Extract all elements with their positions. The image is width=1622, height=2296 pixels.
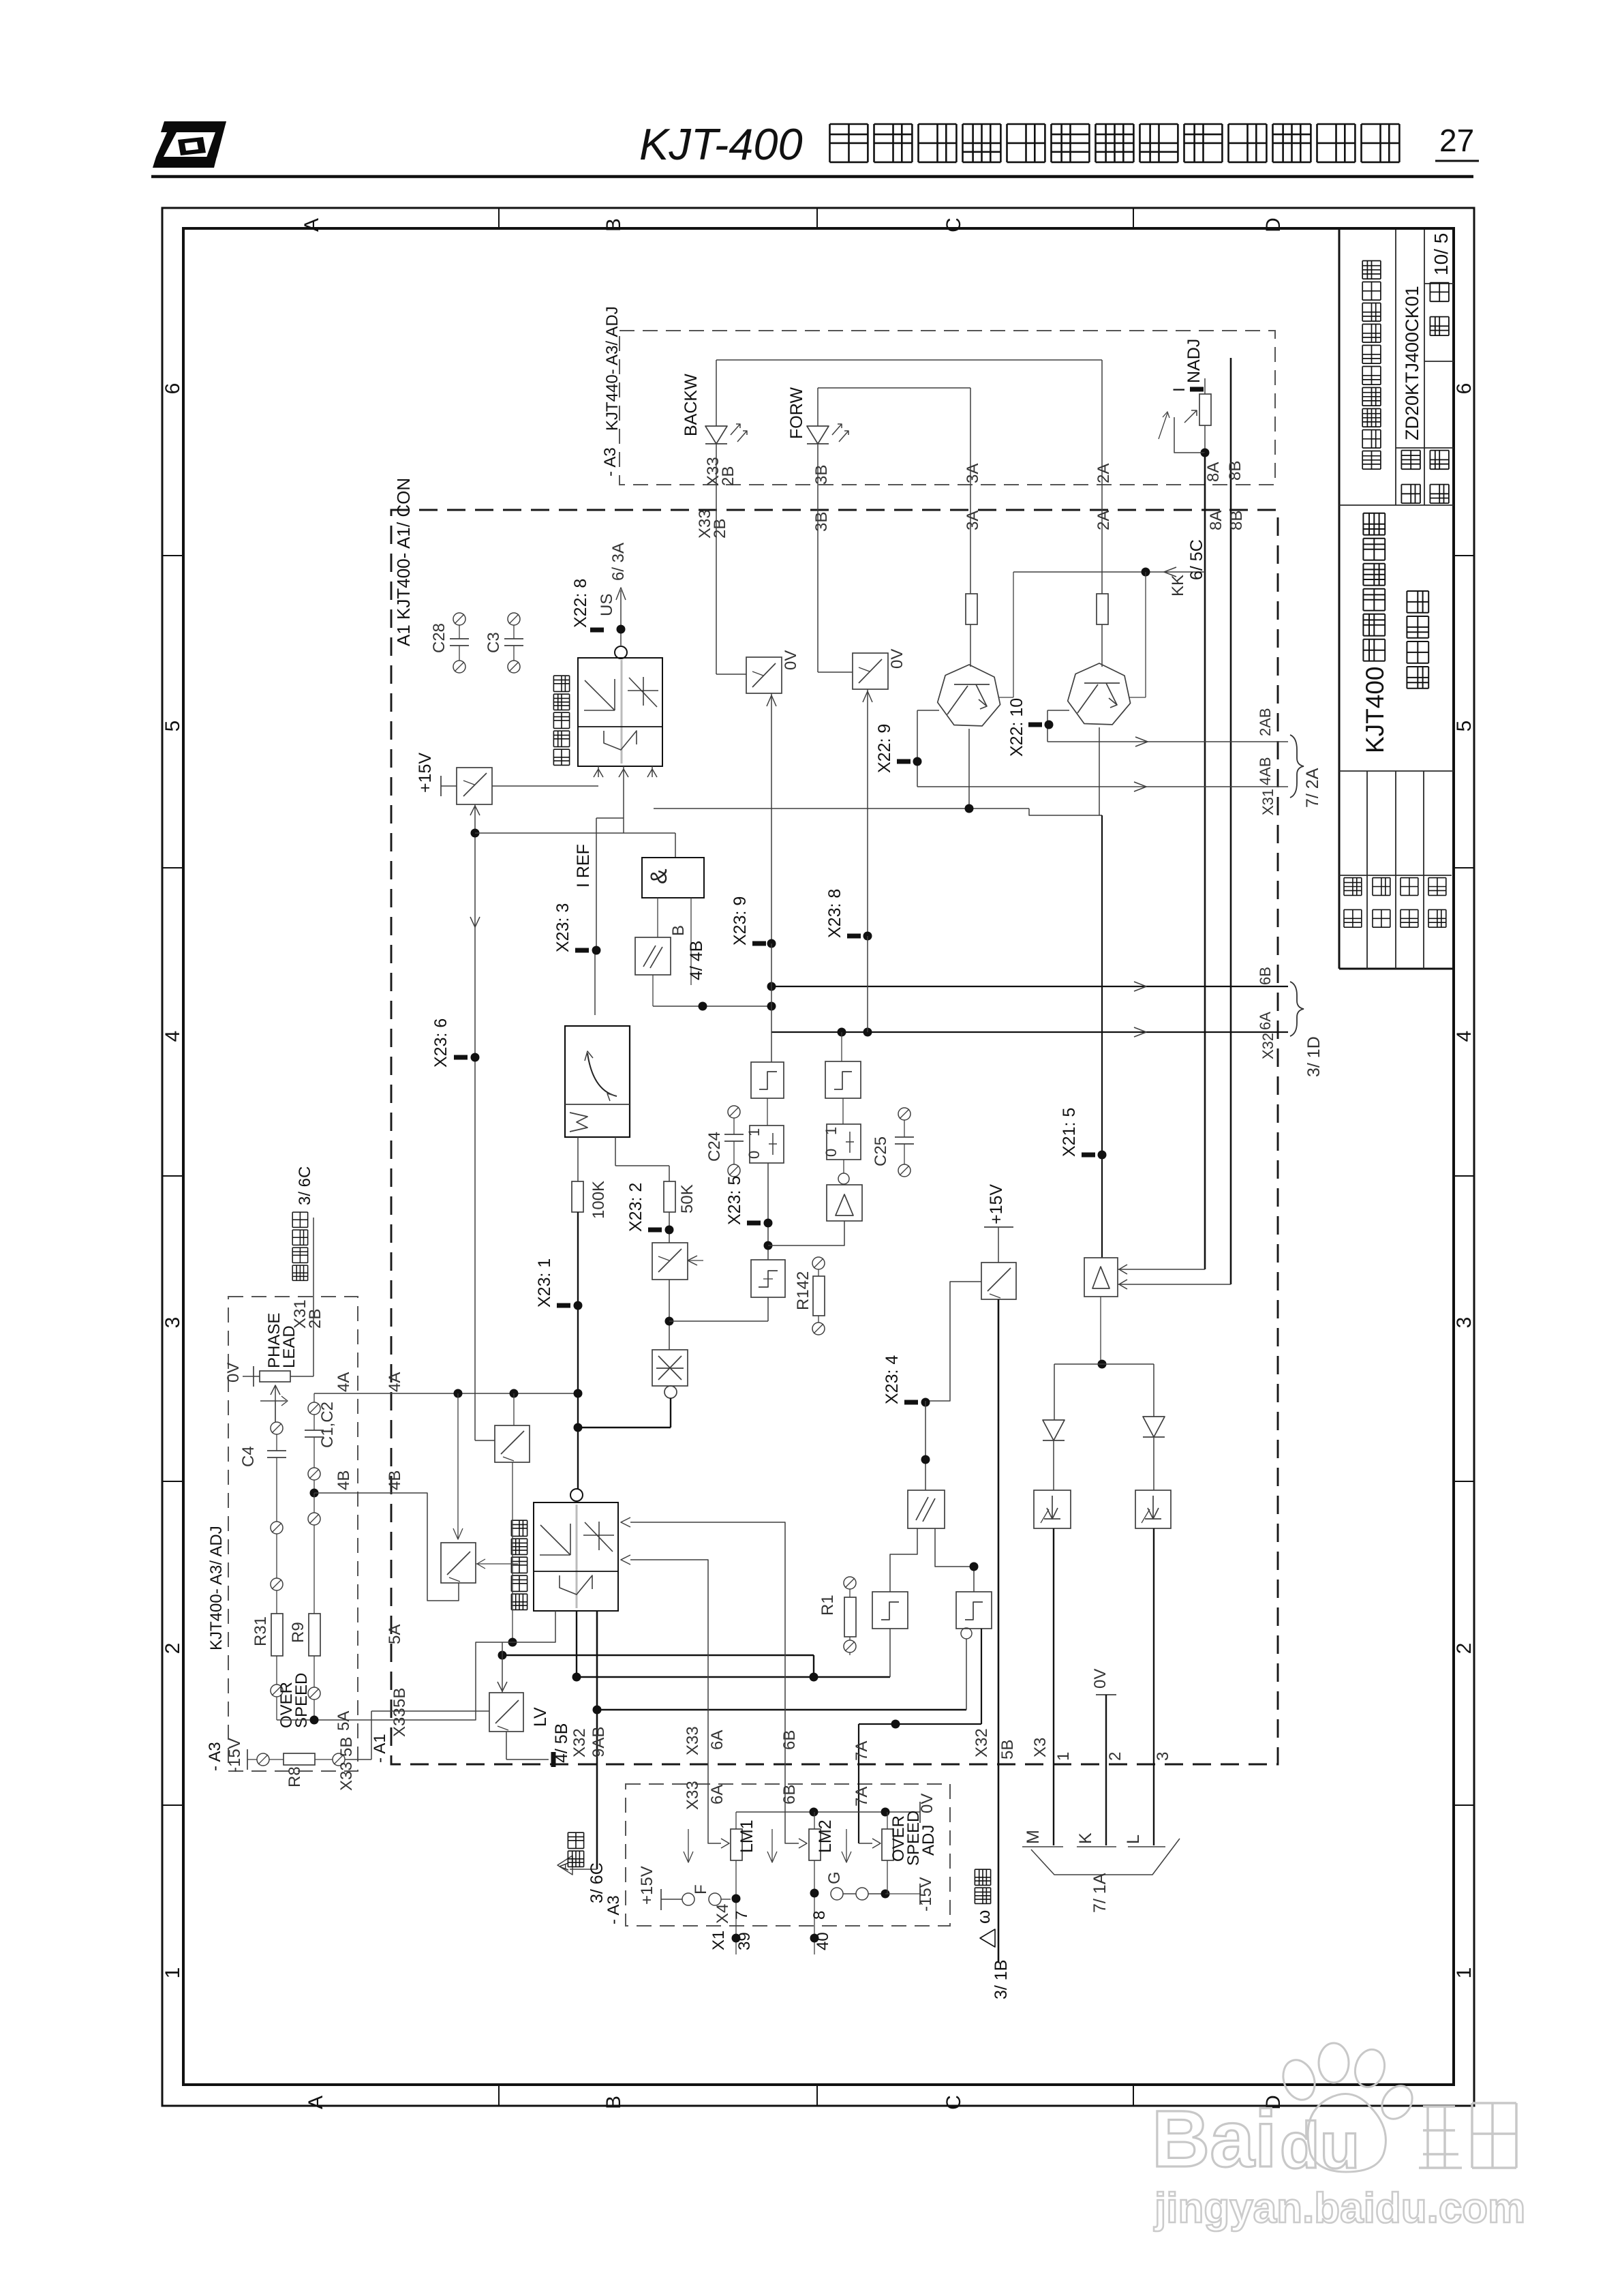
thyristor Q2 — [1068, 663, 1131, 725]
svg-text:-15V: -15V — [226, 1738, 244, 1772]
svg-text:X32: X32 — [1259, 1033, 1276, 1059]
svg-text:4B: 4B — [335, 1470, 353, 1490]
svg-text:4/ 4B: 4/ 4B — [687, 941, 706, 980]
wire 1476 rail — [652, 975, 654, 1006]
terminal X22:10 gate Q2 — [1047, 710, 1069, 711]
grid ticks right band — [1454, 555, 1474, 556]
svg-text:X1: X1 — [709, 1931, 728, 1950]
wire X23:5 chain — [767, 1163, 769, 1260]
svg-text:4A: 4A — [386, 1372, 404, 1392]
svg-text:5: 5 — [1453, 721, 1475, 732]
svg-text:4/ 5B: 4/ 5B — [552, 1723, 571, 1763]
svg-text:X33: X33 — [337, 1762, 356, 1791]
wire 7A drop — [858, 1724, 859, 1843]
svg-text:3/ 6C: 3/ 6C — [587, 1862, 607, 1903]
svg-text:B: B — [669, 925, 688, 936]
svg-text:8: 8 — [810, 1911, 829, 1920]
svg-text:+15V: +15V — [638, 1866, 656, 1905]
wire 6A rail — [771, 1031, 1288, 1033]
terminal X23:6 — [454, 1055, 468, 1060]
terminal X23:8 — [847, 934, 861, 939]
svg-text:B: B — [602, 218, 625, 232]
svg-text:KK: KK — [1169, 575, 1187, 596]
arrow into clamp 1 — [771, 693, 772, 943]
svg-text:- A3: - A3 — [605, 1895, 623, 1924]
resistor R9 — [309, 1614, 320, 1656]
step block B7 — [751, 1062, 784, 1098]
svg-text:0: 0 — [823, 1149, 840, 1157]
svg-text:ADJ: ADJ — [919, 1825, 938, 1856]
svg-text:B: B — [602, 2096, 625, 2109]
svg-text:3: 3 — [162, 1317, 184, 1329]
svg-text:X32: X32 — [570, 1728, 589, 1757]
step block B8 — [867, 936, 868, 1032]
block B9 level 0/1 — [767, 1098, 768, 1126]
svg-text:KJT400- A3/ ADJ: KJT400- A3/ ADJ — [207, 1526, 226, 1650]
wire B11 to X23:5 node — [768, 1221, 844, 1245]
svg-text:0V: 0V — [224, 1363, 243, 1383]
wire X33 5B into A1 — [345, 1759, 371, 1760]
title block text 页次 — [1430, 283, 1449, 336]
svg-text:6A: 6A — [1257, 1012, 1274, 1030]
svg-text:X23: 5: X23: 5 — [725, 1176, 744, 1225]
wire U2 out B 9AB — [596, 1611, 598, 1869]
wire X3:3 L — [1153, 1528, 1154, 1845]
wire multiplier down to 2094 rail — [670, 1398, 671, 1428]
opto block B19 — [1135, 1490, 1171, 1528]
iso amplifier block B14 — [1084, 1258, 1118, 1297]
svg-text:X23: 4: X23: 4 — [883, 1355, 902, 1404]
svg-text:G: G — [825, 1871, 844, 1884]
inner frame — [183, 228, 1454, 2085]
gate block & — [642, 858, 704, 898]
svg-text:US: US — [598, 594, 616, 616]
wire B14 output — [1100, 1297, 1101, 1364]
svg-text:6B: 6B — [780, 1785, 799, 1804]
svg-text:R142: R142 — [794, 1271, 812, 1310]
resistor 100K — [577, 1137, 579, 1181]
svg-text:3A: 3A — [964, 464, 982, 483]
svg-text:0: 0 — [746, 1151, 763, 1159]
step block B16 — [956, 1592, 992, 1629]
svg-text:7A: 7A — [853, 1787, 871, 1807]
wire clamp1 chain vertical 1132 — [771, 943, 772, 1062]
svg-text:X22: 8: X22: 8 — [571, 579, 590, 628]
B14 input arrows from 8A 8B — [1118, 1269, 1205, 1270]
svg-text:LEAD: LEAD — [280, 1325, 299, 1368]
comparator block B17 — [908, 1490, 945, 1528]
arrow into clamp 2 — [867, 689, 868, 936]
wire 4B rail — [314, 1493, 459, 1601]
svg-text:39: 39 — [735, 1932, 754, 1950]
switch block B20 ramp enable — [495, 1425, 530, 1462]
block B10 level 0/1 — [842, 1098, 844, 1124]
dashed box A1 KJT400-A1/CON — [391, 510, 1278, 1764]
wire X23:4 to comparator B17 — [925, 1401, 926, 1490]
title block text 控制框图 line2 — [1407, 591, 1428, 689]
potentiometer OVER SPEED ADJ — [882, 1829, 893, 1860]
svg-text:- A3: - A3 — [206, 1742, 224, 1771]
title block text 日期 — [1430, 451, 1449, 504]
dashed box KJT440-A3/ADJ (top) — [619, 331, 1275, 485]
svg-text:C1,C2: C1,C2 — [318, 1402, 337, 1448]
svg-text:8B: 8B — [1226, 461, 1244, 481]
svg-text:27: 27 — [1439, 123, 1474, 158]
svg-text:6B: 6B — [780, 1730, 799, 1750]
svg-text:L: L — [1124, 1834, 1143, 1844]
svg-text:6/ 3A: 6/ 3A — [609, 543, 628, 581]
svg-text:100K: 100K — [590, 1181, 608, 1219]
svg-text:ZD20KTJ400CK01: ZD20KTJ400CK01 — [1402, 286, 1422, 440]
svg-text:5B: 5B — [998, 1740, 1017, 1759]
potentiometer LM2 — [809, 1829, 821, 1860]
resistor 50K — [615, 1137, 616, 1166]
svg-text:D: D — [1262, 217, 1285, 232]
wire FORW loop 3A — [817, 388, 818, 426]
wire B13 left to X23:4 — [925, 1282, 981, 1401]
svg-text:X23: 2: X23: 2 — [626, 1183, 645, 1232]
header rule — [151, 175, 1473, 179]
svg-text:1: 1 — [823, 1127, 840, 1135]
amplifier block B11 — [843, 1160, 844, 1173]
svg-text:1: 1 — [1453, 1967, 1475, 1979]
title block designer labels 设计 制图 审核 修改 — [1344, 878, 1362, 928]
0V rail bottom box — [736, 1811, 920, 1813]
wire X3:1 M — [1053, 1528, 1054, 1845]
wire 4A rail — [314, 1393, 578, 1394]
thyristor Q1 — [938, 665, 1000, 726]
svg-text:5B: 5B — [391, 1688, 409, 1708]
svg-text:0V: 0V — [888, 649, 906, 669]
title block text KJT400 title line1 — [1361, 513, 1389, 753]
svg-text:5B: 5B — [337, 1737, 356, 1757]
svg-text:3A: 3A — [964, 511, 982, 530]
wire B5 to multiplier — [669, 1280, 670, 1350]
svg-text:C4: C4 — [239, 1446, 258, 1467]
svg-text:R9: R9 — [289, 1622, 307, 1643]
svg-text:0V: 0V — [782, 650, 800, 670]
svg-text:X23: 9: X23: 9 — [731, 896, 750, 946]
svg-text:X31: X31 — [1259, 789, 1276, 815]
step block B15 — [872, 1592, 908, 1629]
wire to -15V — [885, 1893, 920, 1894]
wire 1222 rail to & block — [475, 832, 675, 834]
svg-text:2B: 2B — [719, 466, 737, 486]
svg-text:I: I — [1170, 387, 1189, 392]
terminal X23:1 — [557, 1303, 570, 1308]
grid ticks left band — [162, 555, 183, 556]
svg-text:7/ 2A: 7/ 2A — [1303, 768, 1322, 808]
switch block B5 — [652, 1243, 688, 1280]
svg-text:-15V: -15V — [917, 1877, 935, 1912]
svg-text:FORW: FORW — [787, 387, 806, 439]
svg-text:A1 KJT400- A1/ CON: A1 KJT400- A1/ CON — [393, 478, 414, 646]
U1 input arrows — [598, 766, 599, 777]
svg-text:C28: C28 — [430, 623, 448, 653]
svg-text:LV: LV — [531, 1707, 550, 1727]
svg-text:X33: X33 — [391, 1708, 409, 1737]
svg-text:0V: 0V — [1091, 1669, 1110, 1689]
label overspeed delta-omega 超速 — [975, 1869, 990, 1903]
svg-text:7A: 7A — [853, 1741, 871, 1761]
switch block S1 +15V — [457, 768, 492, 804]
switch block B21 — [441, 1543, 476, 1583]
svg-text:5A: 5A — [335, 1711, 353, 1731]
wire 2508 rail — [597, 1709, 966, 1710]
svg-text:6: 6 — [162, 383, 184, 395]
svg-text:C25: C25 — [872, 1136, 890, 1166]
svg-text:A: A — [305, 2096, 327, 2109]
svg-text:X22: 10: X22: 10 — [1007, 698, 1026, 757]
svg-text:2: 2 — [1453, 1643, 1475, 1655]
svg-text:5A: 5A — [386, 1625, 404, 1644]
dashed box -A3 (bottom pots) — [626, 1784, 950, 1926]
svg-text:X21: 5: X21: 5 — [1060, 1108, 1079, 1157]
wire X23:6 vertical — [474, 804, 476, 1440]
svg-text:3/ 6C: 3/ 6C — [296, 1166, 314, 1205]
terminal NADJ — [1190, 387, 1204, 392]
title block text company 上海智大电子有限公司 — [1362, 261, 1381, 470]
label 速度调节器 — [511, 1520, 527, 1610]
svg-text:LM2: LM2 — [816, 1819, 835, 1853]
wire LV input rail 2428 — [502, 1655, 814, 1656]
wire 2AB — [1047, 741, 1288, 742]
terminal X23:2 — [669, 1212, 670, 1243]
hysteresis block B12 — [751, 1260, 785, 1297]
wire US output to 6/3A — [620, 590, 622, 646]
svg-text:3B: 3B — [812, 512, 831, 532]
svg-text:7/ 1A: 7/ 1A — [1090, 1873, 1110, 1913]
reference brace 7/2A — [1290, 735, 1304, 798]
svg-text:+15V: +15V — [987, 1184, 1006, 1224]
svg-text:X4: X4 — [714, 1904, 732, 1924]
terminal X23:9 — [752, 941, 766, 946]
comparator block B3 — [635, 937, 671, 975]
svg-text:C: C — [943, 217, 965, 232]
header title KJT-400 manual — [639, 119, 1399, 169]
switch block B13 — [981, 1263, 1016, 1299]
wire X31 4AB — [917, 786, 1288, 787]
reference brace 3/1D — [1290, 982, 1304, 1036]
potentiometer NADJ — [1199, 394, 1211, 425]
resistor 3A chain — [966, 594, 977, 624]
title block borders — [1338, 230, 1341, 969]
terminal X22:9 gate Q1 — [968, 729, 970, 809]
svg-text:M: M — [1024, 1830, 1043, 1844]
svg-text:KJT-400: KJT-400 — [639, 119, 803, 169]
svg-text:X3: X3 — [1031, 1738, 1050, 1757]
resistor 2A chain — [1097, 594, 1108, 624]
wire KK 6/5C — [1013, 571, 1205, 573]
title block text 图号 — [1401, 451, 1420, 504]
svg-text:C24: C24 — [705, 1132, 724, 1162]
svg-text:X23: 6: X23: 6 — [431, 1018, 450, 1068]
svg-text:&: & — [646, 868, 672, 884]
label 电流调节器 — [553, 676, 569, 765]
wire X23:1 chain — [577, 1212, 579, 1428]
wire U2 out A rail 2460 — [576, 1611, 577, 1677]
svg-text:2B: 2B — [306, 1309, 324, 1329]
wire BACKW down to 0V clamp — [716, 444, 717, 674]
connector bracket 7/1A — [1031, 1839, 1180, 1875]
wire 7A to OVERSPEED pot — [859, 1843, 872, 1844]
diode D2 — [1143, 1417, 1165, 1437]
wire X31 2B feedback — [313, 1282, 314, 1376]
wire main 1186 rail — [654, 808, 1029, 809]
svg-text:LM1: LM1 — [737, 1819, 756, 1853]
svg-text:8B: 8B — [1227, 511, 1246, 530]
wire 6A to LM1 — [630, 1560, 721, 1843]
wire B22 out to 4/5B — [506, 1732, 507, 1759]
wire 6B to LM2 — [630, 1522, 799, 1843]
svg-text:X33: X33 — [684, 1781, 702, 1810]
arrow 4A into B21 — [457, 1393, 459, 1539]
svg-text:4AB: 4AB — [1257, 757, 1274, 785]
svg-text:3/ 1B: 3/ 1B — [992, 1960, 1011, 1999]
svg-text:BACKW: BACKW — [682, 374, 701, 436]
svg-text:X23: 8: X23: 8 — [825, 889, 844, 938]
svg-text:4B: 4B — [386, 1470, 404, 1490]
switch block B22 LV — [489, 1693, 523, 1732]
svg-text:R8: R8 — [286, 1766, 304, 1787]
svg-text:X32: X32 — [973, 1728, 991, 1757]
svg-text:10/ 5: 10/ 5 — [1430, 233, 1452, 275]
logo ZD (top-left) — [153, 121, 226, 168]
svg-text:1: 1 — [746, 1128, 763, 1136]
wire 6B rail — [771, 986, 1288, 987]
svg-text:KJT400: KJT400 — [1361, 666, 1389, 753]
svg-text:ω: ω — [973, 1910, 994, 1924]
svg-text:3B: 3B — [812, 465, 831, 485]
svg-text:6: 6 — [1453, 383, 1475, 395]
potentiometer PHASE LEAD — [243, 1376, 260, 1377]
wire 8B — [1230, 358, 1232, 1284]
svg-text:X23: 3: X23: 3 — [553, 903, 572, 952]
terminal X23:5 — [747, 1221, 761, 1226]
wire B20 output to 5A node — [512, 1462, 513, 1642]
label 微分反馈 — [292, 1212, 307, 1280]
svg-text:K: K — [1076, 1832, 1095, 1844]
svg-text:8A: 8A — [1207, 511, 1225, 530]
svg-text:2A: 2A — [1095, 511, 1113, 530]
svg-text:4: 4 — [162, 1031, 184, 1042]
wire 2001 rail — [1054, 1363, 1154, 1365]
svg-text:6A: 6A — [708, 1730, 726, 1750]
svg-text:1: 1 — [1054, 1752, 1073, 1761]
svg-text:R1: R1 — [818, 1595, 837, 1616]
grid ticks top band — [498, 208, 500, 228]
svg-text:4: 4 — [1453, 1031, 1475, 1042]
dashed box KJT400-A3/ADJ (left) — [228, 1297, 358, 1771]
svg-text:- A3: - A3 — [601, 447, 619, 477]
svg-text:2: 2 — [162, 1643, 184, 1655]
arrow stub into B21 right — [476, 1563, 518, 1565]
svg-text:Bai: Bai — [1152, 2094, 1277, 2184]
svg-text:2B: 2B — [711, 519, 729, 539]
function block B4 ramp — [565, 1026, 630, 1137]
svg-text:3: 3 — [1154, 1752, 1172, 1761]
svg-text:40: 40 — [814, 1932, 832, 1950]
svg-text:6A: 6A — [708, 1785, 726, 1804]
svg-text:50K: 50K — [678, 1184, 697, 1213]
svg-text:4A: 4A — [335, 1372, 353, 1392]
svg-text:jingyan.baidu.com: jingyan.baidu.com — [1154, 2185, 1525, 2232]
svg-text:1: 1 — [162, 1967, 184, 1979]
svg-text:3/ 1D: 3/ 1D — [1304, 1036, 1323, 1077]
svg-text:2A: 2A — [1095, 464, 1113, 483]
wire overspeed X32:5B long vertical — [998, 1299, 1000, 1962]
svg-text:2: 2 — [1106, 1752, 1124, 1761]
wire X21:5 chain — [1101, 815, 1103, 1258]
terminal X22:8 — [590, 628, 604, 633]
svg-text:0V: 0V — [918, 1794, 936, 1813]
wire 8A — [1204, 453, 1206, 1269]
svg-text:X22: 9: X22: 9 — [875, 724, 894, 773]
svg-text:+15V: +15V — [416, 753, 435, 793]
wire B12 to 1938 rail — [767, 1297, 769, 1321]
terminal X23:4 — [904, 1400, 918, 1405]
wire X23:6 into B20 — [475, 1440, 495, 1441]
svg-text:- A1: - A1 — [371, 1734, 389, 1763]
wire to 3/6C ref (top) — [313, 1218, 314, 1282]
svg-text:2AB: 2AB — [1257, 708, 1274, 736]
block U2 speed regulator 速度调节器 — [534, 1502, 618, 1611]
svg-text:6/ 5C: 6/ 5C — [1187, 539, 1206, 580]
diode D1 — [1043, 1420, 1065, 1440]
adjust arrows bottom pots — [688, 1829, 689, 1861]
terminal X23:3 — [575, 948, 589, 953]
clamp block 0V (FORW) — [853, 653, 888, 689]
svg-text:A: A — [301, 218, 323, 232]
svg-text:7: 7 — [733, 1911, 751, 1920]
outer frame — [162, 208, 1474, 2106]
svg-text:F: F — [692, 1884, 710, 1894]
resistor R8 — [284, 1753, 315, 1765]
svg-text:R31: R31 — [251, 1616, 270, 1646]
svg-text:NADJ: NADJ — [1184, 339, 1204, 383]
U2 input circle — [570, 1489, 583, 1501]
svg-text:9AB: 9AB — [590, 1727, 608, 1757]
wire +15V switch to U1 — [492, 785, 598, 787]
wire B16 out to 2529 rail — [981, 1629, 982, 1724]
svg-text:X23: 1: X23: 1 — [535, 1258, 554, 1308]
svg-text:X33: X33 — [684, 1726, 702, 1755]
svg-text:C: C — [943, 2095, 965, 2110]
U2 right-side input arrows — [621, 1517, 630, 1527]
wire B17 to steps — [890, 1528, 917, 1592]
watermark 经验 characters — [1419, 2103, 1516, 2168]
svg-text:5: 5 — [162, 721, 184, 732]
clamp block 0V (BACKW) — [746, 657, 782, 693]
wire FORW down to 0V clamp — [817, 444, 818, 672]
multiplier block B6 — [652, 1350, 688, 1386]
svg-text:6B: 6B — [1257, 967, 1274, 985]
resistor R31 — [271, 1614, 283, 1656]
svg-text:C3: C3 — [485, 632, 503, 653]
svg-text:I REF: I REF — [574, 844, 593, 888]
test point speed 速度 — [570, 1869, 597, 1870]
svg-text:3: 3 — [1453, 1317, 1475, 1329]
svg-text:8A: 8A — [1204, 462, 1223, 482]
wire 4A drop to B20 — [513, 1393, 515, 1425]
wire 5A rail — [277, 1611, 555, 1720]
potentiometer LM1 — [731, 1829, 742, 1860]
adjust arrow NADJ — [1159, 413, 1167, 439]
opto block B18 — [1034, 1490, 1071, 1528]
wire X23:1 into speed reg — [577, 1428, 579, 1489]
watermark baidu jingyan — [1152, 2043, 1418, 2184]
wire BACKW loop 2A — [716, 360, 717, 426]
